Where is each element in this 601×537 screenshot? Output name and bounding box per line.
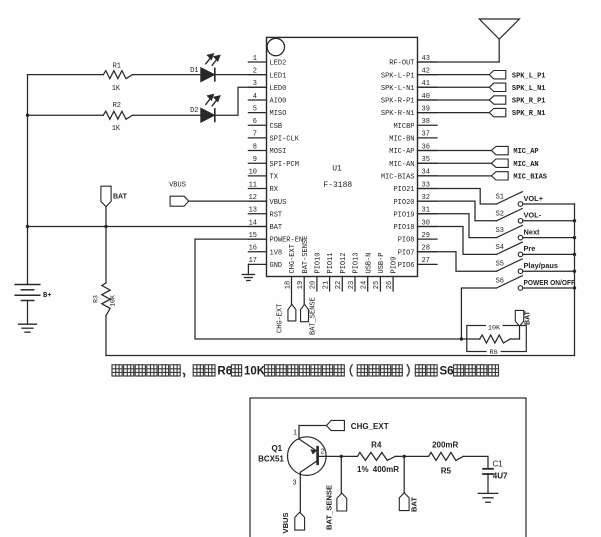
- svg-text:1K: 1K: [112, 85, 121, 93]
- svg-text:CHG-EXT: CHG-EXT: [289, 244, 297, 273]
- wire: left bus to R2: [28, 114, 104, 116]
- svg-text:1V8: 1V8: [270, 249, 283, 257]
- svg-text:PIO19: PIO19: [393, 211, 414, 219]
- LED D2: [190, 94, 220, 122]
- connector pad SPK_L_P1: [489, 71, 545, 81]
- svg-text:MIC_BIAS: MIC_BIAS: [513, 173, 547, 181]
- ground at U1 pin17 GND: [242, 264, 254, 280]
- bottom detail box: [250, 398, 526, 537]
- wire: BAT rail from left bus to U1 pin14: [28, 225, 267, 227]
- svg-text:CSB: CSB: [270, 123, 283, 131]
- svg-text:PIO18: PIO18: [393, 224, 414, 232]
- battery B+: [15, 285, 51, 324]
- switch S3 Next: [496, 225, 575, 240]
- wire: POWER-EN loop from U1 pin15 down to S6/R6 junction: [195, 239, 461, 339]
- wire: bottom rail across page: [106, 355, 575, 357]
- ground under C1: [478, 492, 497, 494]
- node: junction S6 on right bus: [573, 286, 576, 289]
- svg-text:LED2: LED2: [270, 60, 287, 68]
- wire: D1 to U1 pin2 LED1: [215, 74, 267, 76]
- U1 left pin stubs 1-17: [248, 62, 266, 264]
- wire: Q1 pin1 to CHG_EXT pad: [299, 426, 327, 440]
- svg-text:SPK_R_N1: SPK_R_N1: [512, 110, 546, 118]
- svg-text:SPK-L-N1: SPK-L-N1: [381, 85, 415, 93]
- svg-text:16: 16: [249, 245, 257, 253]
- svg-text:RF-OUT: RF-OUT: [389, 60, 414, 68]
- node: junction S2 on right bus: [573, 219, 576, 222]
- svg-text:CHG-EXT: CHG-EXT: [277, 304, 285, 333]
- svg-text:D1: D1: [190, 67, 198, 75]
- node: junction of R2 branch on left bus: [26, 114, 29, 117]
- wire+pad BAT (bottom box): [399, 456, 418, 512]
- resistor R2 1K: [103, 102, 132, 133]
- connector pad SPK_R_P1: [489, 96, 545, 106]
- connector pad BAT (top, to BAT rail): [101, 186, 128, 226]
- wire: antenna to U1 pin43 RF-OUT: [418, 61, 500, 63]
- svg-text:10K: 10K: [110, 295, 117, 307]
- svg-text:S4: S4: [496, 244, 504, 252]
- connector pad SPK_R_N1: [489, 108, 545, 118]
- svg-text:MIC-BN: MIC-BN: [389, 136, 414, 144]
- svg-text:10: 10: [249, 169, 257, 177]
- wire: U1 pin39 to speaker pad: [418, 112, 490, 114]
- svg-text:MISO: MISO: [270, 110, 287, 118]
- svg-text:7: 7: [253, 131, 257, 139]
- svg-text:PIO13: PIO13: [353, 252, 361, 273]
- svg-text:SPK_R_P1: SPK_R_P1: [512, 98, 546, 106]
- svg-text:MIC-AN: MIC-AN: [389, 161, 414, 169]
- connector pad BAT (R6 box): [515, 310, 531, 326]
- connector pad VBUS (bottom box): [281, 512, 304, 533]
- svg-text:PIO8: PIO8: [398, 237, 415, 245]
- svg-text:LED1: LED1: [270, 72, 287, 80]
- svg-text:USB-P: USB-P: [378, 252, 386, 273]
- svg-text:10K: 10K: [488, 324, 501, 332]
- U1 right pin numbers 27-43: [422, 55, 430, 265]
- svg-text:4: 4: [253, 93, 257, 101]
- U1 right pin stubs 27-43: [418, 62, 438, 264]
- wire: U1 pin33 to switch S1: [418, 189, 497, 205]
- wire: left vertical bus from R1 row down to battery: [27, 75, 29, 285]
- svg-text:R3: R3: [93, 295, 100, 303]
- U1 left pin numbers 1-17: [249, 55, 257, 265]
- caption text (Chinese) with R6 10K S6: [112, 365, 499, 378]
- svg-text:MIC_AN: MIC_AN: [513, 161, 538, 169]
- switch S5 Play/paus: [496, 259, 575, 274]
- wire: U1 pin32 to switch S2: [418, 201, 497, 221]
- svg-text:MIC_AP: MIC_AP: [513, 148, 538, 156]
- svg-text:PIO10: PIO10: [315, 252, 323, 273]
- svg-text:USB-N: USB-N: [365, 252, 373, 273]
- svg-text:PIO6: PIO6: [398, 262, 415, 270]
- wire: U1 pin40 to speaker pad: [418, 99, 490, 101]
- svg-text:3: 3: [253, 80, 257, 88]
- LED D1: [190, 54, 220, 82]
- svg-text:SPI-CLK: SPI-CLK: [270, 136, 300, 144]
- svg-text:RX: RX: [270, 186, 279, 194]
- connector pad CHG_EXT (bottom box): [327, 420, 389, 431]
- svg-text:D2: D2: [190, 107, 198, 115]
- svg-text:8: 8: [253, 143, 257, 151]
- svg-text:2: 2: [321, 449, 325, 456]
- wire: S6 input from POWER-EN junction: [461, 288, 496, 339]
- svg-text:GND: GND: [270, 262, 283, 270]
- node: junction S5 on right bus: [573, 270, 576, 273]
- node: junction of BAT rail on left bus: [26, 225, 29, 228]
- connector pad VBUS (to U1 pin12): [169, 182, 189, 207]
- wire+pad BAT_SENSE (bottom box): [325, 456, 347, 530]
- svg-text:MIC-AP: MIC-AP: [389, 148, 414, 156]
- switch S4 Pre: [496, 242, 575, 257]
- svg-text:400mR: 400mR: [373, 465, 399, 474]
- wire: U1 pin34 to mic pad: [418, 175, 492, 177]
- svg-text:MICBP: MICBP: [393, 123, 414, 131]
- svg-text:10K: 10K: [244, 366, 266, 378]
- svg-text:Pre: Pre: [524, 244, 536, 253]
- svg-text:BAT: BAT: [525, 310, 532, 325]
- svg-text:S1: S1: [496, 194, 504, 202]
- ground below battery: [19, 323, 37, 325]
- svg-text:SPI-PCM: SPI-PCM: [270, 161, 299, 169]
- node: junction BAT pad / R3 on BAT rail: [104, 225, 107, 228]
- antenna: [479, 19, 519, 62]
- wire: left bus to R1: [28, 74, 104, 76]
- node: junction BAT (bottom box): [403, 455, 406, 458]
- svg-text:SPK_L_P1: SPK_L_P1: [512, 72, 546, 80]
- svg-text:17: 17: [249, 257, 257, 265]
- svg-text:VBUS: VBUS: [270, 199, 287, 207]
- svg-text:F-3188: F-3188: [323, 181, 352, 190]
- svg-text:PIO7: PIO7: [398, 249, 415, 257]
- svg-text:VBUS: VBUS: [169, 182, 186, 190]
- connector pad SPK_L_N1: [489, 83, 545, 93]
- svg-text:Next: Next: [524, 227, 541, 236]
- svg-text:3: 3: [293, 480, 297, 487]
- svg-text:Play/paus: Play/paus: [524, 261, 559, 270]
- svg-text:13: 13: [249, 207, 257, 215]
- svg-text:R6: R6: [217, 366, 232, 378]
- svg-text:Q1: Q1: [271, 444, 282, 453]
- wire: R4 to R5: [395, 455, 428, 457]
- svg-text:CHG_EXT: CHG_EXT: [351, 422, 389, 431]
- svg-text:R6: R6: [490, 349, 498, 357]
- svg-text:5: 5: [253, 105, 257, 113]
- svg-text:20: 20: [310, 281, 318, 289]
- svg-text:VBUS: VBUS: [281, 512, 290, 533]
- wire: right vertical bus: [574, 204, 576, 356]
- svg-text:S5: S5: [496, 261, 504, 269]
- svg-text:B+: B+: [43, 292, 51, 300]
- svg-text:RST: RST: [270, 211, 283, 219]
- svg-text:VOL+: VOL+: [524, 194, 544, 203]
- resistor R5 200mR: [429, 441, 464, 476]
- svg-text:BAT: BAT: [410, 497, 419, 512]
- wire: Q1 pin2 to R4: [318, 455, 358, 457]
- svg-text:22: 22: [335, 281, 343, 289]
- switch S2 VOL-: [496, 209, 575, 224]
- wire: R3 down to bottom rail: [105, 316, 107, 356]
- svg-text:23: 23: [348, 281, 356, 289]
- switch S1 VOL+: [496, 192, 575, 207]
- svg-text:24: 24: [361, 281, 369, 289]
- svg-text:1%: 1%: [357, 465, 369, 474]
- svg-text:11: 11: [249, 181, 257, 189]
- svg-text:MOSI: MOSI: [270, 148, 287, 156]
- wire: VBUS pad to U1 pin12: [189, 200, 267, 202]
- wire: D2 up to U1 pin3 LED0: [215, 87, 267, 115]
- svg-text:SPK_L_N1: SPK_L_N1: [512, 85, 546, 93]
- svg-text:25: 25: [373, 281, 381, 289]
- svg-text:21: 21: [322, 281, 330, 289]
- IC U1 F-3188 body: [267, 37, 418, 276]
- svg-text:12: 12: [249, 194, 257, 202]
- svg-text:4U7: 4U7: [493, 472, 508, 481]
- U1 left pin names: [270, 60, 304, 270]
- U1 bottom pin numbers 18-26 (rotated): [284, 281, 394, 289]
- svg-text:14: 14: [249, 219, 257, 227]
- resistor R3 10K (vertical): [93, 226, 117, 315]
- svg-text:BAT: BAT: [113, 194, 128, 201]
- svg-text:38: 38: [422, 118, 430, 126]
- wire: U1 pin36 to mic pad: [418, 150, 492, 152]
- wire: U1 pin30 to switch S4: [418, 226, 497, 254]
- svg-text:LED0: LED0: [270, 85, 287, 93]
- svg-text:SPK-R-N1: SPK-R-N1: [381, 110, 415, 118]
- wire: Q1 pin3 to VBUS pad: [299, 472, 301, 512]
- wire: U1 pin41 to speaker pad: [418, 86, 490, 88]
- U1 right pin names: [381, 60, 415, 270]
- svg-text:6: 6: [253, 118, 257, 126]
- svg-text:BAT_SENSE: BAT_SENSE: [325, 485, 334, 530]
- svg-text:S2: S2: [496, 210, 504, 218]
- U1 bottom pin stubs 18-26: [292, 277, 394, 305]
- node: junction BAT_SENSE: [340, 455, 343, 458]
- resistor R1 1K: [103, 63, 132, 94]
- svg-text:POWER-EN: POWER-EN: [270, 237, 304, 245]
- svg-text:MIC-BIAS: MIC-BIAS: [381, 173, 415, 181]
- svg-text:26: 26: [386, 281, 394, 289]
- wire: R5 to C1: [463, 456, 488, 468]
- svg-text:PIO9: PIO9: [391, 257, 399, 274]
- svg-text:1K: 1K: [112, 125, 121, 133]
- svg-text:PIO12: PIO12: [340, 252, 348, 273]
- svg-text:BAT: BAT: [270, 224, 283, 232]
- U1 bottom pin names (rotated, inside chip): [289, 236, 399, 274]
- svg-text:C1: C1: [493, 460, 504, 469]
- connector pad MIC_AP: [491, 146, 538, 156]
- svg-text:19: 19: [297, 281, 305, 289]
- node: junction POWER-EN / S6 / R6: [460, 337, 463, 340]
- connector pad CHG-EXT under pin18: [277, 304, 296, 333]
- svg-text:9: 9: [253, 156, 257, 164]
- svg-text:S3: S3: [496, 227, 504, 235]
- svg-text:R4: R4: [371, 441, 382, 450]
- svg-text:1: 1: [293, 430, 297, 437]
- wire: U1 pin35 to mic pad: [418, 162, 492, 164]
- resistor R6 10K: [461, 323, 519, 357]
- wire: R2 to D2: [133, 114, 202, 116]
- svg-text:TX: TX: [270, 173, 279, 181]
- svg-text:18: 18: [284, 281, 292, 289]
- wire: U1 pin42 to speaker pad: [418, 74, 490, 76]
- svg-text:R2: R2: [113, 102, 121, 110]
- svg-text:R1: R1: [113, 63, 121, 71]
- svg-text:PIO20: PIO20: [393, 199, 414, 207]
- svg-text:PIO11: PIO11: [327, 252, 335, 273]
- wire: R1 to D1: [133, 74, 202, 76]
- capacitor C1 4U7: [483, 460, 508, 494]
- resistor R4 400mR 1%: [357, 441, 399, 474]
- svg-text:BAT-SENSE: BAT-SENSE: [302, 236, 310, 274]
- connector pad MIC_BIAS: [491, 172, 547, 182]
- dashed emphasis box around R6: [467, 326, 527, 352]
- svg-text:VOL-: VOL-: [524, 211, 542, 220]
- svg-text:2: 2: [253, 67, 257, 75]
- svg-text:BCX51: BCX51: [258, 455, 284, 464]
- svg-text:37: 37: [422, 131, 430, 139]
- transistor Q1 BCX51: [258, 430, 326, 487]
- svg-text:29: 29: [422, 232, 430, 240]
- svg-text:SPK-L-P1: SPK-L-P1: [381, 72, 415, 80]
- svg-text:AIO0: AIO0: [270, 98, 287, 106]
- connector pad MIC_AN: [491, 159, 538, 169]
- svg-text:200mR: 200mR: [432, 441, 458, 450]
- wire: U1 pin28 to switch S5: [418, 252, 497, 271]
- node: junction S3 on right bus: [573, 236, 576, 239]
- svg-text:POWER ON/OFF: POWER ON/OFF: [524, 278, 576, 287]
- connector pad BAT_SENSE under pin19: [301, 297, 318, 335]
- node: junction S4 on right bus: [573, 253, 576, 256]
- switch S6 POWER ON/OFF: [496, 276, 576, 291]
- svg-text:BAT_SENSE: BAT_SENSE: [310, 297, 318, 335]
- svg-text:PIO21: PIO21: [393, 186, 414, 194]
- svg-text:S6: S6: [496, 278, 504, 286]
- svg-text:27: 27: [422, 257, 430, 265]
- svg-text:SPK-R-P1: SPK-R-P1: [381, 98, 415, 106]
- svg-text:U1: U1: [332, 165, 342, 174]
- svg-text:R5: R5: [441, 467, 452, 476]
- svg-text:15: 15: [249, 232, 257, 240]
- wire: U1 pin31 to switch S3: [418, 214, 497, 238]
- svg-text:S6: S6: [440, 366, 454, 378]
- svg-text:1: 1: [253, 55, 257, 63]
